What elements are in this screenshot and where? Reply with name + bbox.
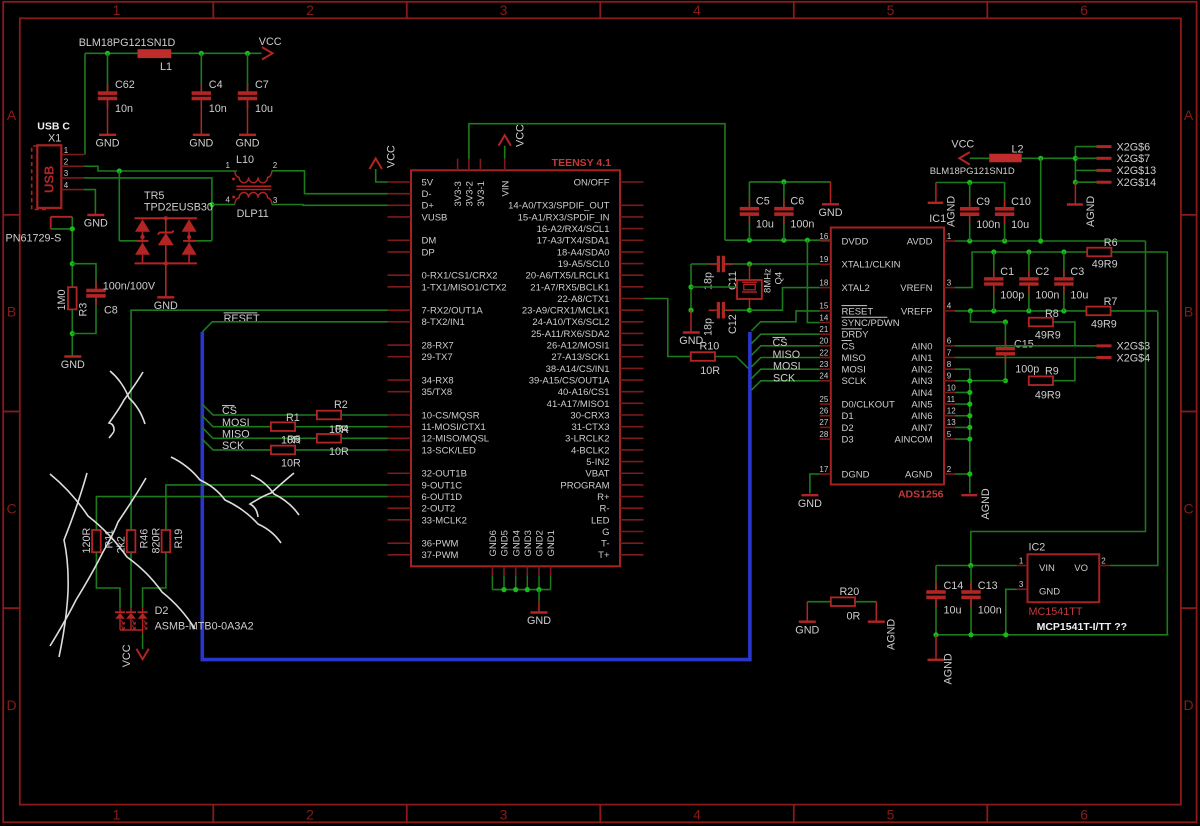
svg-text:19: 19 — [819, 255, 828, 264]
svg-text:3V3-2: 3V3-2 — [465, 181, 476, 206]
svg-text:GND: GND — [96, 137, 120, 149]
svg-text:28: 28 — [819, 430, 828, 439]
svg-text:13: 13 — [947, 418, 956, 427]
svg-text:C12: C12 — [727, 314, 739, 334]
svg-text:6: 6 — [1080, 806, 1088, 822]
svg-text:VREFP: VREFP — [901, 306, 933, 317]
svg-text:X2G$7: X2G$7 — [1117, 153, 1151, 165]
svg-text:AIN1: AIN1 — [911, 353, 932, 364]
svg-text:29-TX7: 29-TX7 — [422, 352, 453, 363]
svg-text:AGND: AGND — [943, 653, 955, 684]
svg-text:BLM18PG121SN1D: BLM18PG121SN1D — [930, 166, 1015, 177]
svg-text:100p: 100p — [1015, 363, 1039, 375]
svg-text:MC1541TT: MC1541TT — [1029, 606, 1083, 618]
svg-text:R1: R1 — [286, 412, 300, 424]
svg-text:0-RX1/CS1/CRX2: 0-RX1/CS1/CRX2 — [422, 271, 498, 282]
svg-text:820R: 820R — [150, 527, 162, 553]
svg-text:1: 1 — [947, 232, 952, 241]
svg-text:MISO: MISO — [842, 353, 866, 364]
svg-text:R5: R5 — [287, 434, 301, 446]
svg-text:C3: C3 — [1070, 266, 1084, 278]
svg-text:12-MISO/MQSL: 12-MISO/MQSL — [422, 434, 490, 445]
svg-text:1: 1 — [226, 161, 231, 170]
svg-text:1: 1 — [113, 2, 121, 18]
svg-text:C7: C7 — [255, 79, 269, 91]
svg-text:MOSI: MOSI — [842, 365, 866, 376]
svg-text:R+: R+ — [597, 492, 610, 503]
svg-text:DP: DP — [422, 247, 435, 258]
svg-text:R-: R- — [599, 504, 609, 515]
svg-text:5: 5 — [947, 430, 952, 439]
svg-text:100n: 100n — [976, 219, 1000, 231]
svg-text:LED: LED — [591, 515, 610, 526]
svg-text:100p: 100p — [1000, 289, 1024, 301]
svg-text:4: 4 — [693, 806, 701, 822]
svg-text:C2: C2 — [1035, 266, 1049, 278]
svg-text:VBAT: VBAT — [585, 469, 609, 480]
svg-text:2: 2 — [1101, 556, 1106, 565]
svg-text:C14: C14 — [944, 580, 964, 592]
svg-text:16-A2/RX4/SCL1: 16-A2/RX4/SCL1 — [537, 224, 610, 235]
svg-text:IC2: IC2 — [1029, 542, 1046, 554]
svg-text:SCK: SCK — [773, 372, 796, 384]
svg-text:5: 5 — [887, 806, 895, 822]
svg-text:XTAL2: XTAL2 — [842, 283, 870, 294]
svg-text:R10: R10 — [700, 340, 720, 352]
svg-text:18-A4/SDA0: 18-A4/SDA0 — [557, 247, 610, 258]
svg-text:22-A8/CTX1: 22-A8/CTX1 — [557, 294, 609, 305]
svg-text:3: 3 — [500, 2, 508, 18]
svg-text:11-MOSI/CTX1: 11-MOSI/CTX1 — [422, 422, 486, 433]
svg-text:1M0: 1M0 — [56, 289, 68, 310]
svg-text:36-PWM: 36-PWM — [422, 539, 459, 550]
svg-text:7: 7 — [947, 348, 952, 357]
svg-text:L1: L1 — [160, 61, 172, 73]
svg-text:D1: D1 — [842, 411, 854, 422]
svg-text:VCC: VCC — [121, 644, 133, 667]
svg-text:AGND: AGND — [980, 488, 992, 519]
svg-text:AIN5: AIN5 — [911, 400, 932, 411]
svg-text:3: 3 — [500, 806, 508, 822]
svg-text:10R: 10R — [281, 458, 301, 470]
svg-text:10u: 10u — [1011, 219, 1029, 231]
svg-text:20: 20 — [819, 337, 828, 346]
svg-text:23: 23 — [819, 360, 828, 369]
svg-text:12: 12 — [947, 407, 956, 416]
svg-text:GND: GND — [236, 137, 260, 149]
svg-text:TPD2EUSB30: TPD2EUSB30 — [144, 201, 213, 213]
svg-text:R2: R2 — [334, 399, 348, 411]
svg-text:6: 6 — [947, 337, 952, 346]
svg-text:X2G$6: X2G$6 — [1117, 141, 1151, 153]
svg-text:16: 16 — [819, 232, 828, 241]
svg-text:D2: D2 — [155, 605, 169, 617]
svg-text:IC1: IC1 — [929, 213, 946, 225]
svg-text:26: 26 — [819, 407, 828, 416]
svg-text:R9: R9 — [1045, 365, 1059, 377]
svg-text:21: 21 — [819, 325, 828, 334]
svg-text:1: 1 — [1019, 556, 1024, 565]
svg-text:GND1: GND1 — [546, 530, 557, 556]
svg-text:G: G — [602, 527, 609, 538]
svg-text:ADS1256: ADS1256 — [898, 488, 944, 500]
svg-text:38-A14/CS/IN1: 38-A14/CS/IN1 — [546, 364, 610, 375]
svg-text:DGND: DGND — [842, 469, 870, 480]
svg-text:AGND: AGND — [946, 196, 958, 227]
svg-text:AIN6: AIN6 — [911, 411, 932, 422]
svg-text:VIN: VIN — [1039, 563, 1055, 574]
svg-text:14: 14 — [819, 313, 828, 322]
svg-text:9: 9 — [947, 372, 952, 381]
svg-text:10R: 10R — [700, 365, 720, 377]
svg-text:19-A5/SCL0: 19-A5/SCL0 — [558, 259, 610, 270]
svg-text:RESET: RESET — [224, 313, 260, 325]
svg-text:24-A10/TX6/SCL2: 24-A10/TX6/SCL2 — [532, 317, 609, 328]
svg-text:L10: L10 — [236, 154, 254, 166]
svg-text:4: 4 — [693, 2, 701, 18]
svg-text:A: A — [7, 107, 17, 123]
svg-text:17: 17 — [819, 465, 828, 474]
svg-text:VREFN: VREFN — [900, 283, 932, 294]
svg-text:10-CS/MQSR: 10-CS/MQSR — [422, 410, 480, 421]
svg-text:GND: GND — [189, 137, 213, 149]
svg-text:5V: 5V — [422, 177, 434, 188]
svg-text:C15: C15 — [1014, 339, 1034, 351]
svg-text:VCC: VCC — [259, 36, 282, 48]
svg-text:C5: C5 — [756, 196, 770, 208]
svg-text:3: 3 — [273, 196, 278, 205]
svg-text:SYNC/PDWN: SYNC/PDWN — [842, 318, 900, 329]
svg-text:CS: CS — [222, 405, 237, 417]
svg-text:AINCOM: AINCOM — [895, 434, 933, 445]
svg-text:MOSI: MOSI — [222, 417, 250, 429]
svg-text:3: 3 — [64, 169, 69, 178]
svg-text:X1: X1 — [48, 132, 61, 144]
svg-text:ASMB-MTB0-0A3A2: ASMB-MTB0-0A3A2 — [155, 620, 254, 632]
svg-text:3: 3 — [1019, 580, 1024, 589]
svg-text:VIN: VIN — [500, 181, 511, 197]
svg-text:USB C: USB C — [37, 121, 70, 133]
svg-text:GND: GND — [795, 624, 819, 636]
svg-text:13-SCK/LED: 13-SCK/LED — [422, 445, 477, 456]
svg-text:MISO: MISO — [773, 349, 801, 361]
svg-text:22: 22 — [819, 348, 828, 357]
svg-text:5-IN2: 5-IN2 — [586, 457, 609, 468]
svg-text:1: 1 — [113, 806, 121, 822]
svg-text:AIN4: AIN4 — [911, 388, 932, 399]
svg-text:3V3-3: 3V3-3 — [453, 181, 464, 206]
svg-text:BLM18PG121SN1D: BLM18PG121SN1D — [79, 37, 176, 49]
svg-text:C: C — [6, 500, 16, 516]
svg-text:TEENSY 4.1: TEENSY 4.1 — [552, 157, 611, 169]
svg-text:8: 8 — [947, 360, 952, 369]
svg-text:4: 4 — [64, 181, 69, 190]
svg-text:30-CRX3: 30-CRX3 — [570, 410, 609, 421]
svg-text:SCK: SCK — [222, 440, 245, 452]
svg-text:40-A16/CS1: 40-A16/CS1 — [558, 387, 610, 398]
svg-text:CS: CS — [842, 341, 855, 352]
svg-text:MCP1541T-I/TT ??: MCP1541T-I/TT ?? — [1037, 621, 1127, 633]
svg-text:9-OUT1C: 9-OUT1C — [422, 480, 463, 491]
svg-text:VCC: VCC — [386, 145, 398, 168]
svg-text:2: 2 — [306, 2, 314, 18]
svg-text:AGND: AGND — [905, 469, 933, 480]
svg-text:3-LRCLK2: 3-LRCLK2 — [565, 434, 609, 445]
svg-text:26-A12/MOSI1: 26-A12/MOSI1 — [547, 341, 610, 352]
svg-text:0R: 0R — [847, 611, 861, 623]
svg-text:120R: 120R — [81, 527, 93, 553]
svg-text:C6: C6 — [790, 196, 804, 208]
svg-text:3: 3 — [947, 278, 952, 287]
svg-text:GND6: GND6 — [488, 530, 499, 556]
svg-text:34-RX8: 34-RX8 — [422, 375, 454, 386]
svg-text:D3: D3 — [842, 434, 854, 445]
svg-text:MISO: MISO — [222, 429, 250, 441]
svg-text:18p: 18p — [703, 318, 715, 336]
svg-text:2: 2 — [273, 161, 278, 170]
svg-text:AIN7: AIN7 — [911, 423, 932, 434]
svg-text:5: 5 — [887, 2, 895, 18]
svg-text:D2: D2 — [842, 423, 854, 434]
svg-text:10u: 10u — [1070, 289, 1088, 301]
svg-text:32-OUT1B: 32-OUT1B — [422, 469, 467, 480]
svg-text:GND: GND — [527, 615, 551, 627]
svg-text:R4: R4 — [335, 424, 349, 436]
svg-text:4: 4 — [947, 302, 952, 311]
svg-text:8-TX2/IN1: 8-TX2/IN1 — [422, 317, 465, 328]
svg-text:49R9: 49R9 — [1092, 259, 1118, 271]
svg-text:D0/CLKOUT: D0/CLKOUT — [842, 400, 896, 411]
svg-text:15: 15 — [819, 302, 828, 311]
svg-text:AGND: AGND — [886, 619, 898, 650]
svg-text:14-A0/TX3/SPDIF_OUT: 14-A0/TX3/SPDIF_OUT — [508, 201, 610, 212]
svg-text:100n: 100n — [978, 605, 1002, 617]
svg-text:T+: T+ — [598, 550, 610, 561]
svg-text:10n: 10n — [209, 103, 227, 115]
svg-text:AIN0: AIN0 — [911, 341, 932, 352]
svg-text:B: B — [1184, 304, 1193, 320]
svg-text:Q4: Q4 — [774, 272, 785, 285]
svg-text:41-A17/MISO1: 41-A17/MISO1 — [547, 399, 610, 410]
svg-text:1: 1 — [64, 146, 69, 155]
svg-text:20-A6/TX5/LRCLK1: 20-A6/TX5/LRCLK1 — [526, 271, 610, 282]
svg-text:R20: R20 — [840, 586, 860, 598]
svg-text:AIN3: AIN3 — [911, 376, 932, 387]
svg-text:18: 18 — [819, 278, 828, 287]
svg-text:17-A3/TX4/SDA1: 17-A3/TX4/SDA1 — [537, 236, 610, 247]
svg-text:RESET: RESET — [842, 306, 874, 317]
svg-text:DRDY: DRDY — [842, 330, 870, 341]
svg-text:4-BCLK2: 4-BCLK2 — [571, 445, 610, 456]
svg-text:C9: C9 — [976, 196, 990, 208]
svg-text:49R9: 49R9 — [1091, 318, 1117, 330]
svg-text:R7: R7 — [1104, 296, 1118, 308]
svg-text:49R9: 49R9 — [1035, 330, 1061, 342]
svg-text:15-A1/RX3/SPDIF_IN: 15-A1/RX3/SPDIF_IN — [518, 212, 610, 223]
svg-text:DVDD: DVDD — [842, 236, 869, 247]
svg-text:R19: R19 — [173, 529, 185, 549]
svg-text:L2: L2 — [1012, 143, 1024, 155]
svg-text:39-A15/CS/OUT1A: 39-A15/CS/OUT1A — [529, 375, 610, 386]
svg-text:DM: DM — [422, 236, 437, 247]
svg-text:27: 27 — [819, 418, 828, 427]
svg-text:D-: D- — [422, 189, 432, 200]
svg-text:24: 24 — [819, 372, 828, 381]
svg-text:C13: C13 — [978, 580, 998, 592]
svg-text:AVDD: AVDD — [907, 236, 933, 247]
svg-text:10n: 10n — [115, 103, 133, 115]
svg-text:R8: R8 — [1045, 308, 1059, 320]
svg-text:6-OUT1D: 6-OUT1D — [422, 492, 463, 503]
svg-text:10u: 10u — [756, 219, 774, 231]
svg-text:R3: R3 — [78, 303, 90, 317]
svg-text:MOSI: MOSI — [773, 361, 801, 373]
svg-text:USB: USB — [42, 166, 57, 193]
svg-text:37-PWM: 37-PWM — [422, 550, 459, 561]
svg-text:PROGRAM: PROGRAM — [560, 480, 609, 491]
svg-text:27-A13/SCK1: 27-A13/SCK1 — [551, 352, 609, 363]
svg-text:28-RX7: 28-RX7 — [422, 341, 454, 352]
svg-text:25: 25 — [819, 395, 828, 404]
svg-text:PN61729-S: PN61729-S — [6, 232, 62, 244]
svg-text:D: D — [1184, 697, 1194, 713]
svg-text:GND3: GND3 — [523, 530, 534, 556]
svg-text:C: C — [1184, 500, 1194, 516]
svg-text:GND4: GND4 — [511, 530, 522, 556]
svg-text:SCLK: SCLK — [842, 376, 867, 387]
svg-text:AGND: AGND — [1085, 196, 1097, 227]
svg-text:2: 2 — [64, 157, 69, 166]
svg-text:C4: C4 — [209, 79, 223, 91]
svg-text:11: 11 — [947, 395, 956, 404]
svg-text:GND5: GND5 — [500, 530, 511, 556]
svg-text:AIN2: AIN2 — [911, 365, 932, 376]
svg-text:2: 2 — [306, 806, 314, 822]
svg-text:4: 4 — [226, 196, 231, 205]
svg-text:31-CTX3: 31-CTX3 — [571, 422, 609, 433]
svg-text:C8: C8 — [104, 305, 118, 317]
svg-text:GND: GND — [84, 218, 108, 230]
svg-text:XTAL1/CLKIN: XTAL1/CLKIN — [842, 260, 901, 271]
svg-text:35/TX8: 35/TX8 — [422, 387, 453, 398]
svg-text:GND: GND — [61, 359, 85, 371]
svg-text:49R9: 49R9 — [1035, 389, 1061, 401]
svg-text:D+: D+ — [422, 201, 435, 212]
svg-text:C10: C10 — [1011, 196, 1031, 208]
svg-text:C62: C62 — [115, 79, 135, 91]
svg-text:2: 2 — [947, 465, 952, 474]
svg-text:10u: 10u — [255, 103, 273, 115]
svg-text:1-TX1/MISO1/CTX2: 1-TX1/MISO1/CTX2 — [422, 282, 507, 293]
svg-text:100n: 100n — [790, 219, 814, 231]
svg-text:33-MCLK2: 33-MCLK2 — [422, 515, 467, 526]
svg-text:3V3-1: 3V3-1 — [476, 181, 487, 206]
svg-text:10u: 10u — [944, 605, 962, 617]
svg-text:23-A9/CRX1/MCLK1: 23-A9/CRX1/MCLK1 — [522, 306, 610, 317]
svg-text:VCC: VCC — [515, 124, 527, 147]
svg-text:6: 6 — [1080, 2, 1088, 18]
svg-text:DLP11: DLP11 — [237, 208, 269, 220]
svg-text:10: 10 — [947, 383, 956, 392]
svg-text:D: D — [6, 697, 16, 713]
svg-text:8MHz: 8MHz — [763, 268, 774, 293]
svg-text:X2G$4: X2G$4 — [1117, 352, 1151, 364]
svg-text:R6: R6 — [1104, 237, 1118, 249]
svg-text:X2G$14: X2G$14 — [1117, 177, 1157, 189]
svg-text:2-OUT2: 2-OUT2 — [422, 504, 456, 515]
svg-text:7-RX2/OUT1A: 7-RX2/OUT1A — [422, 306, 484, 317]
svg-text:B: B — [7, 304, 16, 320]
svg-text:ON/OFF: ON/OFF — [574, 177, 610, 188]
svg-text:100n: 100n — [1035, 289, 1059, 301]
svg-text:21-A7/RX5/BCLK1: 21-A7/RX5/BCLK1 — [530, 282, 609, 293]
svg-text:A: A — [1184, 107, 1194, 123]
svg-text:25-A11/RX6/SDA2: 25-A11/RX6/SDA2 — [531, 329, 610, 340]
svg-text:X2G$3: X2G$3 — [1117, 341, 1151, 353]
svg-text:TR5: TR5 — [144, 190, 164, 202]
svg-text:GND: GND — [798, 498, 822, 510]
svg-text:T-: T- — [601, 539, 609, 550]
svg-text:100n/100V: 100n/100V — [103, 281, 156, 293]
svg-text:GND: GND — [819, 207, 843, 219]
svg-text:R46: R46 — [138, 529, 150, 549]
svg-text:VCC: VCC — [951, 138, 974, 150]
svg-text:X2G$13: X2G$13 — [1117, 165, 1157, 177]
svg-text:C1: C1 — [1000, 266, 1014, 278]
svg-text:10R: 10R — [329, 446, 349, 458]
svg-text:GND: GND — [1039, 587, 1060, 598]
svg-text:VO: VO — [1074, 563, 1088, 574]
svg-text:VUSB: VUSB — [422, 212, 448, 223]
svg-text:GND2: GND2 — [535, 530, 546, 556]
svg-text:CS: CS — [773, 337, 788, 349]
